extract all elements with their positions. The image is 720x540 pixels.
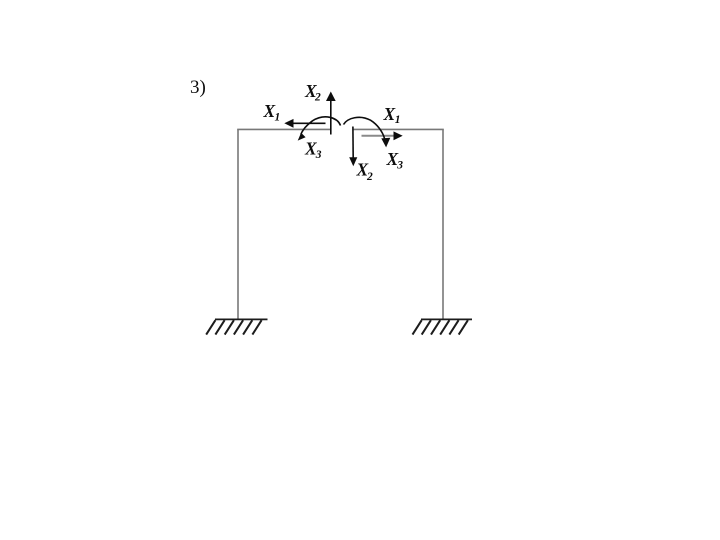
svg-text:3: 3 [315, 149, 322, 161]
svg-text:3): 3) [190, 77, 206, 98]
svg-text:2: 2 [314, 92, 321, 104]
right support hatching [413, 320, 468, 334]
svg-text:1: 1 [395, 114, 401, 126]
arrow X1 right (right of cut) [362, 131, 403, 140]
arrow X2 up (left of cut) [326, 92, 336, 135]
beam left segment [237, 128, 331, 130]
beam right segment [353, 128, 444, 130]
svg-text:2: 2 [366, 171, 373, 183]
right support ground line [421, 318, 472, 320]
left support ground line [215, 318, 268, 320]
moment arc X3 (right of cut) [344, 117, 391, 147]
arrow X2 down (right of cut) [349, 127, 357, 167]
moment arc X3 (left of cut) [298, 117, 341, 141]
left support hatching [206, 320, 261, 334]
right column [442, 129, 444, 319]
left column [237, 129, 239, 319]
arrow X1 left (left of cut) [284, 119, 325, 128]
svg-text:3: 3 [396, 160, 403, 172]
svg-text:1: 1 [275, 112, 281, 124]
